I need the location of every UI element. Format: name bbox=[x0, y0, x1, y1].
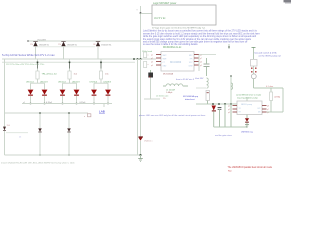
svg-text:(270k): (270k) bbox=[275, 97, 281, 99]
label U1 note line bbox=[176, 78, 195, 81]
svg-text:LED3C3: LED3C3 bbox=[90, 82, 98, 84]
wire top feed bus bbox=[28, 40, 141, 42]
U1 left pin 3 bbox=[156, 61, 161, 63]
wire trunk to logic box bbox=[141, 13, 153, 15]
node mid bus 213 bbox=[212, 103, 214, 105]
U2 inside labels bbox=[239, 108, 242, 110]
label trunk net bbox=[137, 9, 138, 11]
label LED1D3 bbox=[40, 82, 48, 84]
wire Q3 to bottom rail bbox=[253, 79, 255, 88]
wire bus tap down to LAB node bbox=[103, 104, 105, 108]
label phase note long line bbox=[139, 114, 206, 117]
LED LED1D3 bbox=[42, 90, 48, 95]
value label D3 1N4148 bbox=[101, 45, 112, 47]
node mid bus 225 bbox=[224, 103, 226, 105]
U1 right pin 5 bbox=[194, 64, 199, 66]
value label D1 1N4148 bbox=[39, 45, 50, 47]
net label 12Vin bbox=[142, 51, 152, 53]
U1 left pin 4 bbox=[156, 64, 161, 66]
label top diode D1 part no bbox=[37, 39, 46, 41]
wire right loop right leg bbox=[282, 88, 284, 112]
label sense value 1 bbox=[46, 102, 53, 104]
wire Q3 down bbox=[253, 66, 255, 74]
ground symbol main bbox=[140, 155, 142, 159]
wire split bar R2 bbox=[63, 82, 77, 84]
resistor R3 bbox=[99, 71, 102, 79]
component loop end sense bbox=[88, 114, 91, 117]
wire to LED anode left R3 bbox=[93, 83, 95, 89]
component X1 driver box bbox=[251, 60, 258, 67]
wire LED3D3 cathode bbox=[107, 96, 109, 104]
note paragraph line 6 bbox=[143, 43, 198, 46]
caption red line1 bbox=[228, 166, 273, 169]
wire L1 left bbox=[163, 85, 166, 87]
wire sense vertical pair right bbox=[140, 59, 142, 137]
wire stub 229 vertical top bbox=[228, 44, 230, 49]
svg-text:Vcc 5 V dc: Vcc 5 V dc bbox=[154, 17, 166, 20]
wire to LED anode right R1 bbox=[44, 83, 46, 89]
X1 red pin marks row2 bbox=[251, 71, 252, 72]
net title 5-chip series string bbox=[2, 53, 55, 57]
wire U1 right header bbox=[199, 54, 216, 56]
node trunk top bbox=[140, 12, 142, 14]
wire C4 down bbox=[207, 101, 209, 105]
wire D1 to lower bus bbox=[35, 46, 37, 59]
wire right horizontal 88 bbox=[254, 87, 284, 89]
label L1 value bbox=[166, 89, 176, 91]
label U1 below bbox=[163, 73, 174, 76]
label resistor R1 value bbox=[42, 73, 58, 76]
wire LED1C3 cathode bbox=[30, 96, 32, 104]
wire trunk vertical bbox=[140, 6, 142, 59]
LED LED1C3 bbox=[28, 90, 34, 95]
wire Q2 down bbox=[213, 111, 215, 127]
wire L1 right bbox=[183, 85, 188, 87]
label U2 below blue bbox=[241, 130, 253, 133]
wire right rail top bbox=[253, 47, 255, 59]
wire to LED anode right R2 bbox=[76, 83, 78, 89]
wire R2 to split bbox=[69, 79, 71, 83]
U2 right pin 5 bbox=[262, 105, 267, 107]
label U1 link line2 bbox=[185, 98, 195, 101]
label LED3D3 bbox=[104, 82, 112, 84]
wire main left bus A bbox=[2, 58, 156, 60]
wire left rail down bbox=[4, 59, 6, 155]
wire block2 bottom bus bbox=[214, 126, 247, 128]
LED LED3C3 bbox=[91, 90, 97, 95]
wire main left bus B bbox=[2, 61, 135, 63]
wire U1 right drop a bbox=[198, 55, 200, 72]
wire C5 down bbox=[219, 109, 221, 127]
U2 right pin 6 bbox=[262, 108, 267, 110]
LED LED2C3 bbox=[60, 90, 66, 95]
wire stub right of D6 bbox=[6, 132, 28, 134]
U1 inside pin names left bbox=[163, 55, 168, 57]
label LED2D3 bbox=[72, 82, 80, 84]
node bus junction b bbox=[137, 58, 139, 60]
label U1 title bbox=[163, 46, 182, 49]
wire to LED anode left R1 bbox=[30, 83, 32, 89]
wire loop drop D5 bbox=[68, 113, 70, 155]
wire U2 top feed bbox=[246, 97, 248, 101]
note paragraph line 4 bbox=[143, 38, 252, 41]
label D6 value bbox=[7, 125, 10, 127]
node bus junction c bbox=[140, 58, 142, 60]
transistor Q3 circle bbox=[251, 74, 256, 79]
U2 left pin 1 bbox=[233, 105, 238, 107]
resistor R2 bbox=[68, 71, 71, 79]
wire R9 down bbox=[270, 101, 272, 113]
wire drop 225 bbox=[224, 104, 226, 127]
wire R3 to split bbox=[100, 79, 102, 83]
svg-text:1N4148 SL: 1N4148 SL bbox=[101, 45, 112, 47]
diode D7 clamp bbox=[138, 137, 142, 140]
wire upper-left bus segment bbox=[36, 46, 95, 48]
wire LED2D3 cathode bbox=[76, 96, 78, 104]
svg-text:0.15x1: 0.15x1 bbox=[46, 102, 53, 104]
ground symbol U2 bbox=[246, 123, 248, 125]
X1 red pin marks row1 bbox=[251, 68, 252, 69]
svg-text:1Ck: 1Ck bbox=[74, 74, 78, 76]
wire to LED anode right R3 bbox=[107, 83, 109, 89]
label D7 bbox=[144, 141, 153, 143]
node mid bus 231 bbox=[230, 103, 232, 105]
U1 right pin 7 bbox=[194, 57, 199, 59]
U1 left pin 2 bbox=[156, 57, 161, 59]
transistor Q2 red bbox=[212, 106, 217, 111]
label shunt value red bbox=[266, 86, 274, 88]
node label LAB link bbox=[99, 110, 105, 114]
svg-text:1N4: 1N4 bbox=[7, 125, 10, 127]
svg-text:o: o bbox=[84, 116, 85, 118]
label right note line2 bbox=[259, 55, 282, 58]
svg-text:12Vin fused: 12Vin fused bbox=[142, 51, 152, 53]
diode D2 1N4148 bbox=[61, 42, 65, 47]
label L1 part red bit bbox=[163, 97, 166, 100]
wire D2 to lower bus bbox=[63, 46, 65, 59]
node top bus tap bbox=[27, 40, 28, 41]
U2 right pin 7 bbox=[262, 111, 267, 113]
value label D2 1N4148 bbox=[67, 45, 78, 47]
wire drop 231 bbox=[230, 104, 232, 127]
svg-text:LED3D3: LED3D3 bbox=[104, 82, 112, 84]
wire LED2C3 cathode bbox=[62, 96, 64, 104]
wire D7 to ground bus bbox=[140, 141, 142, 155]
wire split bar R3 bbox=[94, 82, 108, 84]
svg-text:NE555 pump: NE555 pump bbox=[241, 104, 252, 106]
wire LED return bus bbox=[22, 103, 112, 105]
caption red line2 bbox=[228, 170, 233, 172]
wire Vout stub bbox=[196, 87, 206, 89]
wire feed drop R1 bbox=[37, 59, 39, 71]
inductor L3 small bbox=[231, 83, 233, 89]
wire Q1 emitter bbox=[150, 78, 152, 100]
resistor R1 bbox=[36, 71, 39, 79]
wire up 231 coil bbox=[230, 76, 232, 104]
label lower loop net bbox=[19, 135, 22, 138]
node 231 top bbox=[230, 75, 231, 76]
transistor Q1 pass bbox=[148, 73, 153, 78]
svg-text:LED1D3: LED1D3 bbox=[40, 82, 48, 84]
wire LED1D3 cathode bbox=[44, 96, 46, 104]
svg-text:LED1C3: LED1C3 bbox=[26, 82, 34, 84]
wire loop drop D4 bbox=[39, 113, 41, 155]
resistor R9 270k bbox=[270, 92, 273, 101]
label resistor R2 value bbox=[74, 74, 78, 76]
node mid bus 219 bbox=[218, 103, 220, 105]
caption bottom parts list bbox=[1, 162, 75, 165]
svg-text:1Ck: 1Ck bbox=[105, 74, 109, 76]
diode D8 under U2 bbox=[245, 118, 249, 121]
svg-text:0.15x1: 0.15x1 bbox=[80, 102, 87, 104]
label Vout blue bbox=[195, 77, 204, 80]
U2 left pin 2 bbox=[233, 108, 238, 110]
IC U1 MC34063 box bbox=[161, 52, 194, 72]
label resistor R3 value bbox=[105, 74, 109, 76]
inductor L2 small bbox=[207, 78, 209, 88]
wire sense vertical pair left bbox=[137, 59, 139, 155]
value label D1 left bbox=[30, 44, 33, 46]
svg-text:L1 220uH: L1 220uH bbox=[166, 89, 176, 91]
wire U2 bottom stub bbox=[246, 115, 248, 119]
IC U2 555 box bbox=[237, 101, 262, 115]
wire C3 bottom bbox=[206, 66, 208, 76]
label sense value 2 bbox=[80, 102, 87, 104]
label logic box title bbox=[153, 2, 177, 5]
label LED2C3 bbox=[58, 82, 66, 84]
node bus junction a bbox=[133, 58, 135, 60]
label U2 title line2 bbox=[237, 96, 259, 99]
label sense value 0 bbox=[23, 102, 25, 104]
diode D4 bbox=[38, 128, 42, 131]
wire C1C2 rail bbox=[144, 52, 146, 59]
diode D5 bbox=[67, 128, 71, 131]
note paragraph line 5 bbox=[143, 40, 248, 43]
wire R1 to split bbox=[37, 79, 39, 83]
node right rail tick bbox=[252, 47, 256, 49]
svg-text:CT: CT bbox=[163, 62, 165, 64]
svg-text:12V 27Vs 9Vw o12V 27Vs: 12V 27Vs 9Vw o12V 27Vs 5Vw o12V 27Vs bbox=[6, 64, 44, 66]
wire right loop left leg bbox=[270, 88, 272, 92]
label R9 value bbox=[275, 97, 281, 99]
svg-text:1N4001 x: 1N4001 x bbox=[144, 141, 153, 143]
svg-text:x1: x1 bbox=[23, 102, 25, 104]
label U1 link line1 bbox=[183, 95, 199, 98]
U1 right pin 6 bbox=[194, 61, 199, 63]
label L1 current bbox=[166, 91, 172, 94]
wire mid bus bbox=[196, 103, 237, 105]
net labels along bus bbox=[6, 64, 44, 66]
capacitor C1 timing box upper bbox=[144, 52, 147, 58]
U1 left pin 1 bbox=[156, 54, 161, 56]
svg-text:LED2C3: LED2C3 bbox=[58, 82, 66, 84]
label U2 name inside bbox=[241, 104, 252, 106]
wire to LED anode left R2 bbox=[62, 83, 64, 89]
U2 left pin 3 bbox=[233, 111, 238, 113]
svg-text:MC34063A dc-dc: MC34063A dc-dc bbox=[163, 46, 182, 49]
inductor L1 bbox=[166, 84, 183, 86]
wire D3 to lower bus bbox=[97, 46, 99, 59]
svg-text:LED2D3: LED2D3 bbox=[72, 82, 80, 84]
wire C3 top bbox=[206, 58, 208, 64]
capacitor C5 plates bbox=[218, 107, 222, 109]
note paragraph line 3 bbox=[143, 35, 257, 38]
wire feed drop R2 bbox=[69, 59, 71, 71]
svg-text:LAB: LAB bbox=[99, 110, 105, 114]
svg-text:1N4148W: 1N4148W bbox=[37, 39, 46, 41]
label block2 bottom note bbox=[215, 134, 232, 137]
wire LED3C3 cathode bbox=[93, 96, 95, 104]
value label D3 left bbox=[93, 44, 96, 46]
value label D2 left bbox=[58, 44, 61, 46]
capacitor C3 plates bbox=[204, 63, 210, 65]
note paragraph line 2 bbox=[143, 32, 260, 35]
wire lower loop top bbox=[5, 112, 89, 114]
wire right loop bottom bbox=[267, 111, 284, 113]
svg-text:g: g bbox=[137, 9, 138, 11]
U1 right pin 8 bbox=[194, 54, 199, 56]
node ground junction bbox=[140, 154, 142, 156]
wire Q1 collector bbox=[150, 70, 152, 73]
wire bottom ground bus bbox=[5, 154, 141, 156]
block logic MOSFET box bbox=[152, 5, 216, 25]
label LED3C3 bbox=[90, 82, 98, 84]
caption under logic box bbox=[152, 27, 206, 30]
label LED1C3 bbox=[26, 82, 34, 84]
U1 inside pin names right bbox=[189, 55, 193, 57]
LED LED2D3 bbox=[74, 90, 80, 95]
diode D6 left rail bbox=[3, 127, 6, 131]
label U1 name inside bbox=[170, 60, 182, 64]
wire split bar R1 bbox=[31, 82, 45, 84]
capacitor C2 timing box lower bbox=[144, 62, 147, 68]
note paragraph line 1 bbox=[143, 30, 258, 33]
label right note line1 bbox=[255, 51, 278, 54]
diode D3 1N4148 bbox=[96, 42, 100, 47]
corner logo smudge bbox=[284, 0, 292, 2]
svg-text:0.1 ohm: 0.1 ohm bbox=[266, 86, 274, 88]
wire feed drop R3 bbox=[100, 59, 102, 71]
label U2 title line1 bbox=[236, 93, 262, 96]
wire Q1 emitter bus bbox=[144, 98, 160, 100]
LED LED3D3 bbox=[105, 90, 111, 95]
label Vcc inside box bbox=[154, 17, 166, 20]
capacitor C4 electrolytic bbox=[206, 91, 209, 101]
diode D1 1N4148 bbox=[33, 42, 37, 47]
label L1 part green bbox=[156, 94, 169, 97]
